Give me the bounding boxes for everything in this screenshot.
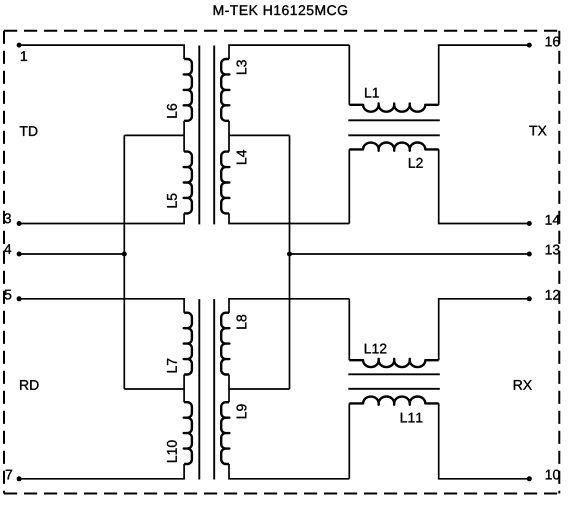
pin 3 dot: [17, 221, 22, 226]
inductor L4: [221, 152, 229, 214]
wire L11 left leg: [348, 403, 350, 478]
inductor L5: [184, 152, 192, 214]
inductor L2: [349, 142, 438, 150]
wire L12 right leg to pin12: [439, 299, 530, 360]
wire L5 to pin3: [19, 213, 184, 223]
wire pin4 to left taps junction: [19, 253, 124, 255]
label L11: [401, 413, 423, 423]
label pin 1: [21, 51, 27, 61]
wire L8 top rail: [229, 299, 349, 313]
wire L4 bottom rail: [229, 213, 349, 223]
pin 7 dot: [17, 476, 22, 481]
wire pin1 to L6: [19, 45, 184, 59]
junction right taps: [287, 252, 292, 257]
wire right taps junction to pin13: [290, 253, 530, 255]
wire L3 top rail: [229, 45, 349, 59]
wire L1 left leg: [348, 45, 350, 105]
wire center tap RX horizontal: [229, 388, 290, 390]
pin 12 dot: [527, 296, 532, 301]
label L5: [167, 194, 177, 208]
label pin 12: [546, 290, 560, 300]
wire center tap to L5: [183, 135, 185, 151]
label pin 4: [4, 244, 11, 254]
label pin 14: [546, 215, 560, 225]
label L12: [365, 344, 387, 354]
inductor L12: [349, 359, 438, 367]
wire L1 right leg to pin16: [439, 45, 530, 105]
wire L3 to center tap: [228, 121, 230, 136]
label L6: [167, 104, 177, 118]
wire L9 bottom rail: [229, 464, 349, 479]
label L7: [167, 359, 177, 373]
label TX: [529, 126, 546, 136]
label TD: [20, 126, 38, 136]
label pin 5: [5, 290, 12, 300]
label RD: [20, 380, 38, 390]
pin 13 dot: [527, 252, 532, 257]
label L1: [365, 88, 379, 98]
pin 14 dot: [527, 221, 532, 226]
label pin 7: [6, 470, 12, 480]
transformer T2 core: [199, 299, 214, 479]
label L9: [237, 404, 247, 418]
wire L8 to center tap: [228, 375, 230, 390]
wire L11 right leg to pin10: [439, 403, 530, 478]
inductor L11: [349, 396, 438, 404]
label pin 10: [546, 470, 560, 480]
pin 1 dot: [17, 43, 22, 48]
wire center tap to L9: [228, 389, 230, 402]
wire pin5 to L7: [19, 299, 184, 313]
label pin 16: [546, 37, 560, 47]
wire center tap TD horizontal: [124, 134, 184, 136]
inductor L7: [184, 313, 192, 375]
wire center tap RD horizontal: [124, 388, 184, 390]
junction left taps: [122, 252, 127, 257]
label L8: [237, 315, 247, 329]
pin 16 dot: [527, 43, 532, 48]
label L3: [237, 60, 247, 74]
wire L2 right leg to pin14: [439, 149, 530, 223]
transformer T1 core: [199, 46, 214, 225]
label L2: [409, 158, 423, 168]
inductor L9: [221, 402, 229, 464]
label pin 3: [4, 213, 11, 223]
inductor L8: [221, 313, 229, 375]
title M-TEK H16125MCG: [214, 5, 347, 15]
inductor L1: [349, 103, 438, 111]
label L10: [167, 440, 177, 462]
wire center tap to L10: [183, 389, 185, 402]
pin 5 dot: [17, 296, 22, 301]
wire center tap to L4: [228, 135, 230, 151]
wire L12 left leg: [348, 299, 350, 360]
wire L2 left leg: [348, 149, 350, 223]
choke CM1 core: [348, 120, 440, 135]
wire right tap vertical: [289, 135, 291, 389]
pin 10 dot: [527, 476, 532, 481]
inductor L3: [221, 59, 229, 121]
choke CM2 core: [348, 374, 440, 389]
wire L10 to pin7: [19, 464, 184, 479]
label pin 13: [546, 245, 560, 255]
wire center tap TX horizontal: [229, 134, 290, 136]
inductor L6: [184, 59, 192, 121]
wire L6 to center tap: [183, 121, 185, 136]
wire L7 to center tap: [183, 375, 185, 390]
wire left tap vertical: [123, 135, 125, 389]
pin 4 dot: [17, 252, 22, 257]
inductor L10: [184, 402, 192, 464]
label RX: [514, 380, 532, 390]
label L4: [237, 150, 247, 164]
